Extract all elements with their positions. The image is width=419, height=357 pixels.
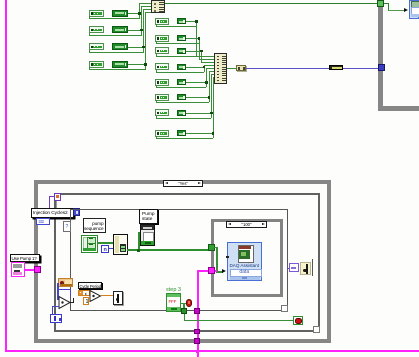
wire [89,298,91,299]
wait timer node [58,278,74,288]
wire [199,59,215,60]
wire [52,306,54,315]
junction [140,29,143,32]
wire [186,38,199,39]
wire [181,303,187,305]
time target label ms [289,263,300,273]
wire [49,196,50,208]
loop frame E left edge [378,0,383,110]
wire [156,116,157,118]
numeric constant L3b [112,43,128,50]
numeric constant L2b [112,26,128,33]
tunnel (magenta) [194,329,200,335]
wire [227,68,236,69]
wire [204,65,205,72]
junction [138,12,141,15]
wire [128,47,144,48]
label "Pump state" [139,209,158,224]
wire [89,69,145,70]
wire [89,52,143,53]
numeric constant L1b [112,10,128,17]
tunnel (green) [377,0,384,7]
wire [156,136,157,138]
numeric constant 1 [83,297,90,305]
wire [52,306,60,308]
wire [139,3,140,20]
wire [388,3,389,10]
wire [287,268,290,269]
wire [89,50,90,52]
array constant "pump sequence" [81,235,98,253]
numeric constant M5b [177,79,187,85]
wire [156,43,199,44]
junction [195,20,198,23]
DAQ Assistant express VI [227,242,262,281]
wire [109,248,114,249]
wire [49,196,54,197]
junction [144,63,147,66]
sequence frame C [70,209,288,311]
label "Use Pump 1?" [10,254,40,262]
wire [184,320,295,321]
wire arrowhead [222,269,226,273]
wire [186,51,201,52]
numeric constant M2a [155,35,169,42]
junction [205,81,208,84]
build-array node B2 [214,53,227,84]
wire [141,6,151,7]
iteration terminal i [50,314,62,323]
wire [213,77,215,78]
numeric constant M4b [177,64,187,70]
wire [156,70,157,72]
numeric constant M4a [155,63,169,70]
wire [196,56,214,57]
numeric constant L4a [89,61,104,68]
comparator node [58,296,72,309]
wire [186,82,206,83]
wire [206,68,214,69]
string wire (main vertical) [5,0,7,351]
wire [156,118,212,119]
array wire [97,242,113,244]
express VI node (top right, cut) [409,0,419,19]
wire [141,6,142,36]
local variable "Pump state" [140,224,155,246]
junction [212,132,215,135]
wire [246,68,378,70]
wait(ms) node [113,291,123,305]
numeric constant M6b [177,94,187,100]
numeric terminal DBL [78,290,90,296]
wire [73,298,74,302]
numeric constant M8a [155,130,169,137]
resize corner [313,326,320,333]
wire [201,51,202,62]
resize corner [281,305,288,312]
small VI node at loop corner [54,193,61,201]
wire [156,138,213,139]
wire [101,295,113,296]
tunnel (magenta) [208,267,215,274]
wire [186,67,204,68]
loop frame E bottom edge [378,106,419,111]
wire [156,24,157,26]
wire [206,68,207,88]
junction [208,96,211,99]
numeric constant M7a [155,109,169,116]
loop count terminal N [73,208,80,216]
numeric terminal I32 [36,218,50,225]
string wire [25,269,37,271]
wire [209,71,215,72]
wire [156,85,157,87]
wire [196,21,197,56]
junction [200,50,203,53]
junction [196,350,199,353]
wire [211,74,214,75]
round LED node [186,299,192,307]
wire arrowhead [404,8,408,12]
wire [156,72,204,73]
case structure A frame [34,180,331,343]
wire [139,3,151,4]
wire [214,247,218,249]
wire [128,64,146,65]
wire [56,201,57,209]
wire [156,102,209,103]
wire [209,71,210,103]
numeric constant M5a [155,79,169,86]
build-array node B1 [151,0,165,13]
numeric constant M2b [177,35,187,41]
wire [186,97,209,98]
wire [204,65,215,66]
junction [198,37,201,40]
tunnel (magenta) [34,266,41,273]
wire [138,232,140,249]
numeric constant M6a [155,94,169,101]
wire [216,271,223,273]
wire value label [329,65,343,71]
junction [142,46,145,49]
string wire (bottom horizontal) [5,350,419,352]
wire [89,18,139,19]
wire [156,56,202,57]
label "Injection Cycles2" [31,208,74,218]
wire [199,38,200,59]
tunnel (magenta) [194,338,200,344]
numeric constant L3a [89,43,104,50]
tunnel (green) [181,308,187,314]
numeric constant n [101,245,109,253]
wire [57,289,70,291]
wire [213,77,214,139]
wire [70,289,72,298]
wire [57,283,59,300]
node input dot [226,256,229,259]
wire [388,10,404,12]
wire [165,3,377,4]
label "Cycle Period" [78,282,102,289]
junction [137,249,140,252]
label "step 3" [166,287,181,293]
numeric constant L4b [112,61,128,68]
wire [89,35,141,36]
wire [186,21,196,22]
tunnel (blue) [378,64,385,71]
case selector label "Yes" [163,180,203,188]
while loop B frame [54,193,320,332]
wire [156,41,157,43]
numeric constant L1a [89,10,104,17]
wire [70,302,74,303]
wire [89,16,90,18]
multiply node [89,290,102,302]
wire [156,54,157,56]
string wire (into DAQ loop) [197,270,210,272]
numeric constant M3a [155,47,169,54]
wire [211,74,212,118]
wire [216,247,218,272]
wire [89,67,90,69]
numeric constant L2a [89,26,104,33]
wait icon node [300,262,311,275]
loop stop terminal [293,316,303,326]
wire [201,62,214,63]
wire [143,9,151,10]
conversion node [236,65,246,71]
wire [143,9,144,53]
tunnel (magenta) [194,308,200,314]
wire [183,303,185,310]
wire [156,87,207,88]
wire [384,3,389,4]
numeric constant M7b [177,110,187,116]
wire [215,270,218,272]
numeric constant M8b [177,130,187,136]
wire [89,33,90,35]
wire [128,30,142,31]
wire [127,249,210,251]
numeric constant M1b [177,18,187,24]
wire [156,26,197,27]
wire [156,100,157,102]
wire [145,12,151,13]
loop selector label "100" [226,221,267,228]
write node "step 3" [166,293,181,312]
string control terminal "Use Pump 1?" [11,262,25,277]
numeric constant M3b [177,48,187,54]
wire [90,293,92,294]
string wire (branch to DAQ loop) [197,270,199,357]
wire [128,13,140,14]
loop D frame [211,219,283,297]
cursor mark [312,259,313,276]
numeric constant M1a [155,18,169,25]
wire [184,314,185,320]
wire [138,232,141,234]
case selector terminal [63,221,71,232]
junction [210,112,213,115]
wire [186,133,213,134]
junction [203,66,206,69]
tunnel (green) [208,244,215,251]
wire [145,12,146,71]
label "pump sequence" [83,218,106,233]
index array node [113,234,128,255]
wire [186,113,211,114]
